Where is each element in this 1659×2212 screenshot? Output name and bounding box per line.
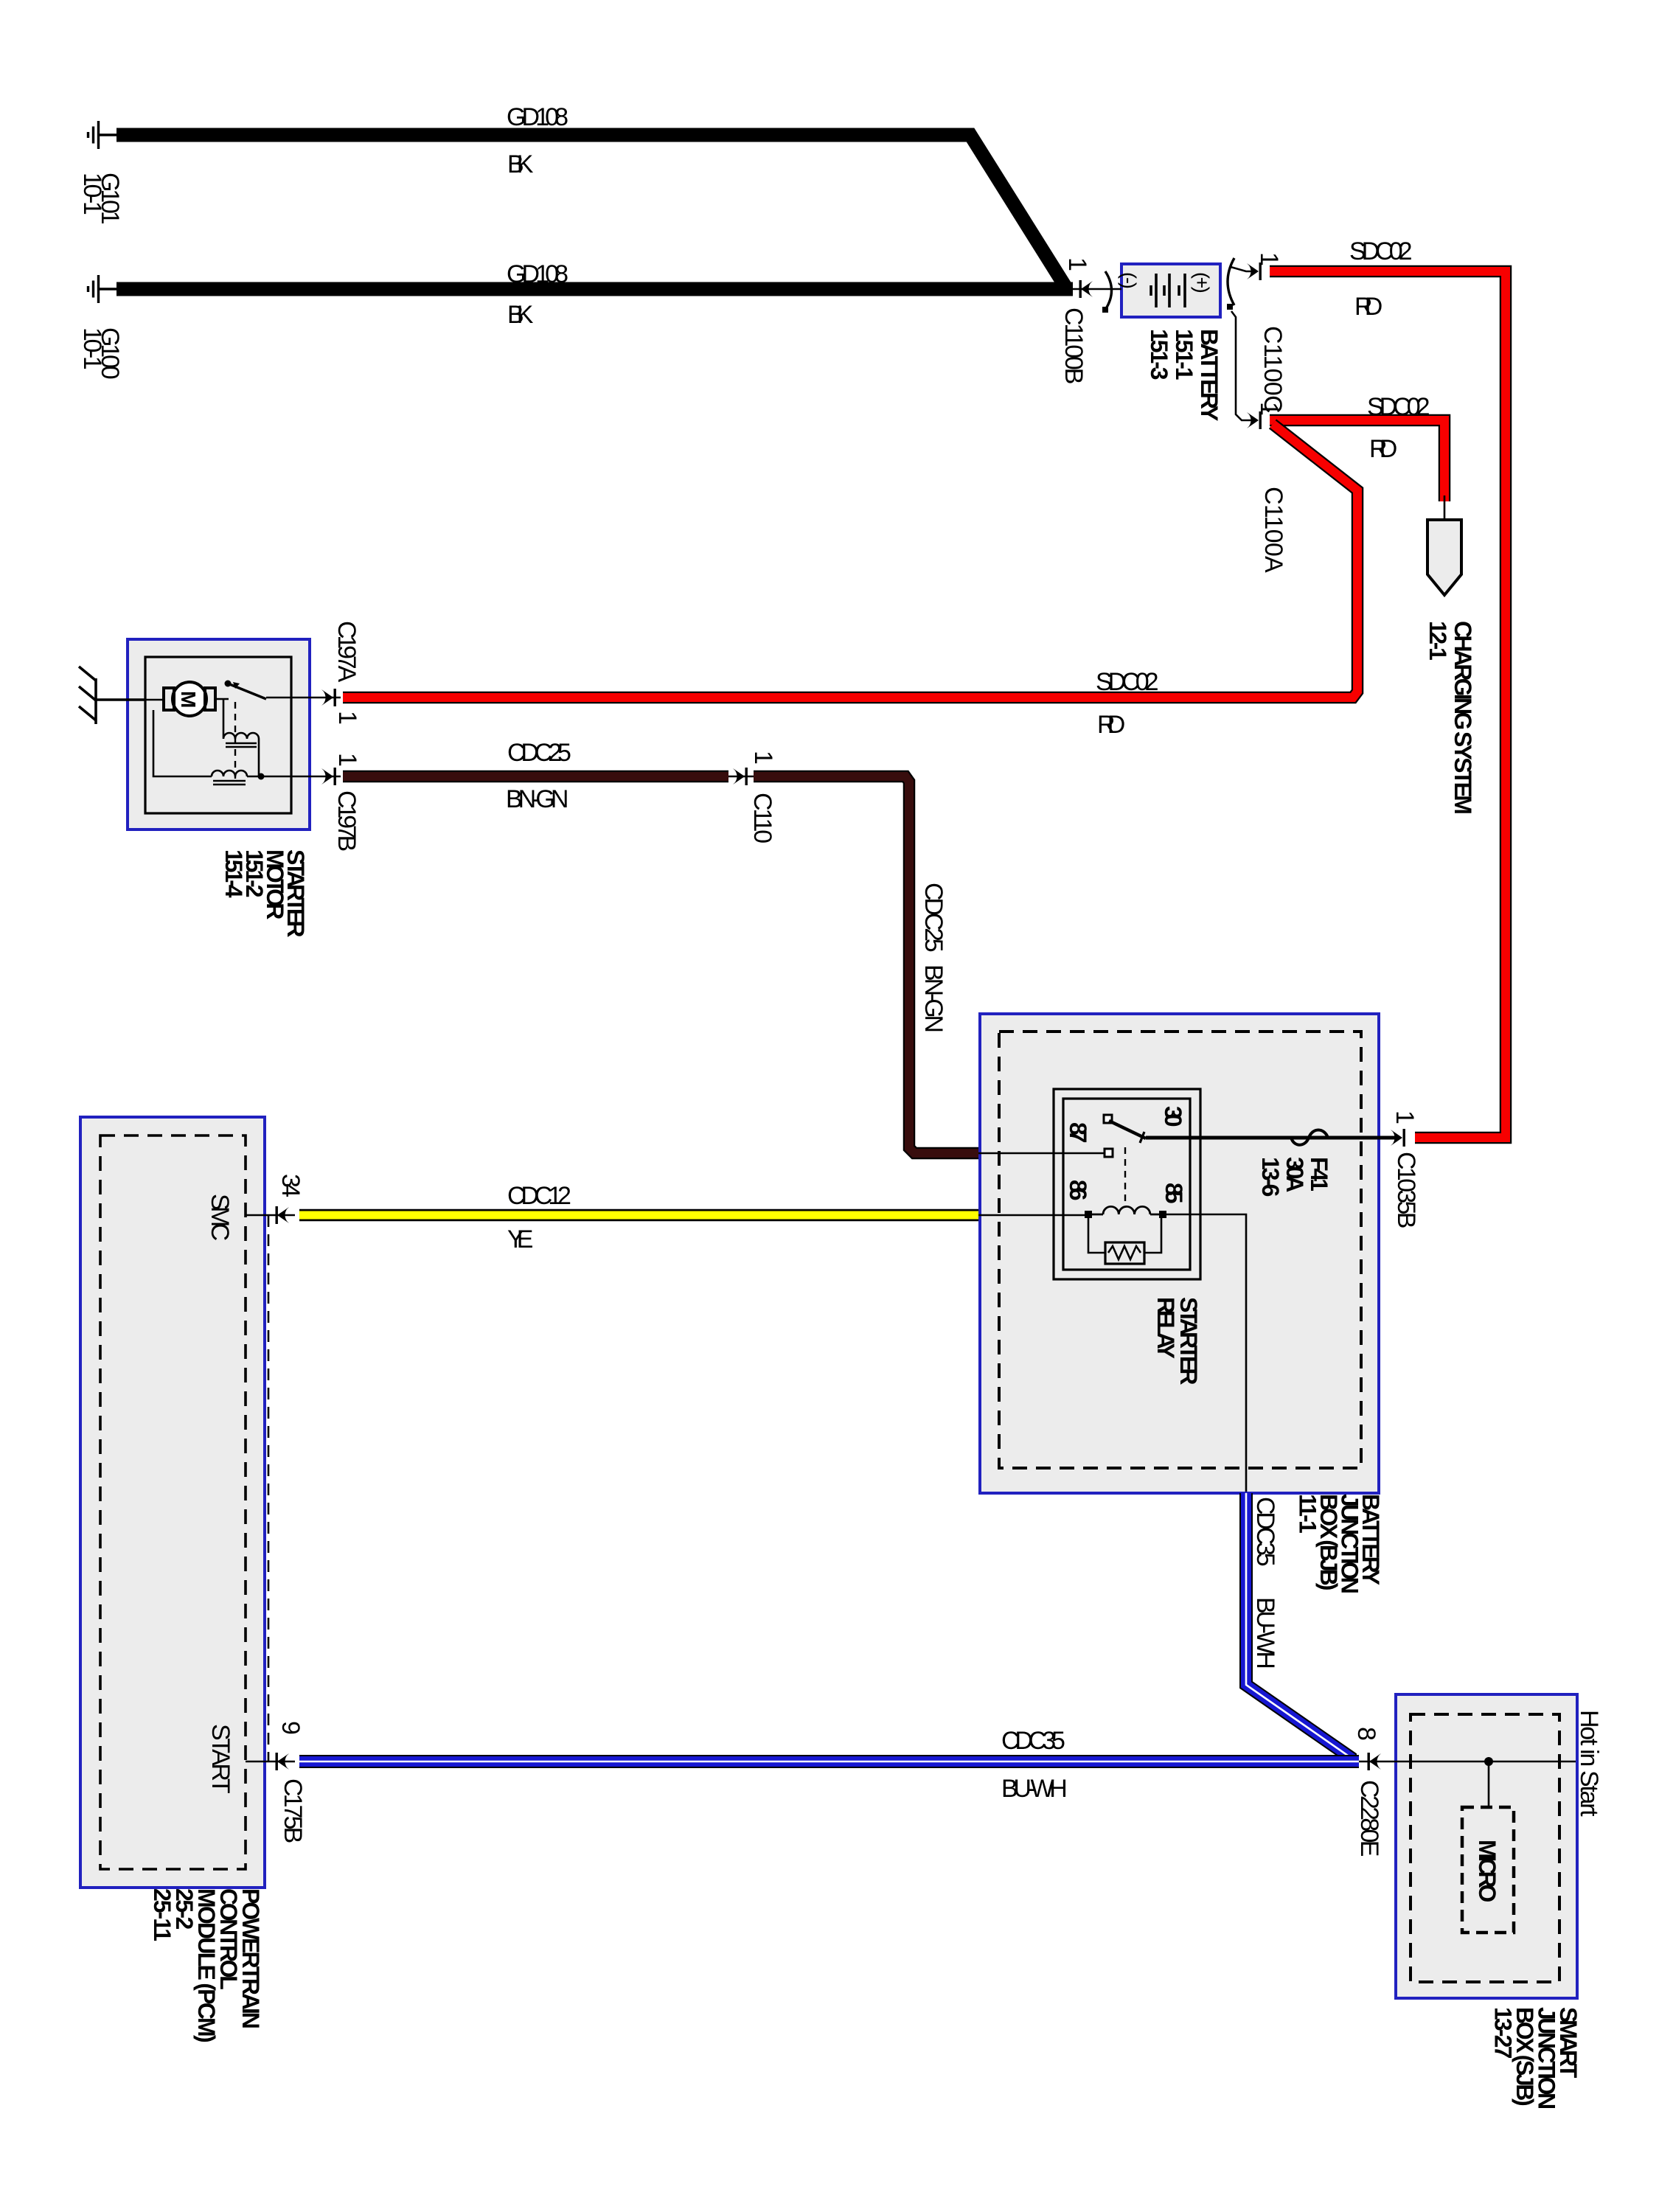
wire CDC25 C110 to BJB xyxy=(754,776,978,1153)
connector C197B xyxy=(321,768,336,785)
PCM dashed border xyxy=(100,1135,246,1869)
lead from GD108 to battery negative xyxy=(1073,288,1121,291)
svg-text:1: 1 xyxy=(1255,252,1283,266)
connector C1100B xyxy=(1079,280,1093,298)
MICRO dashed box xyxy=(1462,1807,1514,1933)
connector C1100C xyxy=(1247,262,1262,280)
svg-text:MICRO: MICRO xyxy=(1474,1840,1500,1902)
svg-text:34: 34 xyxy=(276,1174,305,1197)
svg-text:85: 85 xyxy=(1161,1183,1187,1204)
wire CDC25 starter to C110 xyxy=(343,771,728,783)
svg-text:F4130A13-6: F4130A13-6 xyxy=(1257,1157,1332,1197)
svg-text:1: 1 xyxy=(333,711,361,725)
relay switch blade xyxy=(1104,1115,1112,1123)
fuse F41 symbol xyxy=(1291,1130,1328,1145)
svg-text:87: 87 xyxy=(1065,1122,1091,1144)
svg-text:RD: RD xyxy=(1097,711,1125,739)
svg-text:1: 1 xyxy=(333,753,361,767)
svg-text:SDC02: SDC02 xyxy=(1349,237,1413,265)
wire SDC02 C1100A to starter motor xyxy=(343,424,1357,698)
wire CDC35 PCM START to SJB xyxy=(299,1755,1359,1768)
svg-text:1: 1 xyxy=(1255,402,1283,416)
wire SDC02 battery to C1035B (vertical run) xyxy=(1270,271,1506,1138)
svg-text:BK: BK xyxy=(507,301,534,329)
wire CDC12 PCM SMC to BJB xyxy=(299,1209,978,1222)
svg-text:GD108: GD108 xyxy=(507,103,568,131)
lead CDC12 to relay pin 86 xyxy=(978,1214,1087,1217)
svg-text:C1100B: C1100B xyxy=(1060,307,1088,384)
battery junction box (BJB) xyxy=(980,1014,1379,1493)
connector C110 xyxy=(733,768,748,785)
starter relay outer box xyxy=(1054,1089,1200,1279)
relay pin 87 contact xyxy=(1105,1149,1113,1157)
svg-text:BN-GN: BN-GN xyxy=(919,964,947,1033)
starter motor M circle xyxy=(173,682,206,716)
svg-text:C197B: C197B xyxy=(333,790,361,852)
svg-text:(+): (+) xyxy=(1191,272,1213,293)
svg-text:SMC: SMC xyxy=(206,1194,234,1241)
svg-text:9: 9 xyxy=(276,1721,305,1735)
SJB junction node xyxy=(1484,1757,1493,1766)
svg-text:RD: RD xyxy=(1369,435,1397,463)
solenoid hold-in winding xyxy=(212,771,247,776)
connector C197A xyxy=(321,689,336,706)
connector C1100A xyxy=(1247,411,1262,429)
starter motor box xyxy=(128,639,310,829)
relay pin 85 to CDC35 line xyxy=(1166,1214,1246,1492)
dashed link switch to solenoid xyxy=(234,702,236,779)
svg-text:C1100C: C1100C xyxy=(1259,326,1287,414)
svg-text:8: 8 xyxy=(1352,1727,1380,1741)
relay dashed actuator line xyxy=(1124,1147,1126,1208)
svg-text:C197A: C197A xyxy=(333,621,361,683)
chassis ground at starter motor xyxy=(79,667,145,724)
connector pin 34 of C175B xyxy=(276,1206,290,1224)
svg-text:C175B: C175B xyxy=(279,1778,307,1843)
svg-text:CDC35: CDC35 xyxy=(1001,1727,1065,1755)
SJB dashed border xyxy=(1411,1714,1559,1982)
connector C2280E xyxy=(1368,1753,1382,1770)
svg-text:86: 86 xyxy=(1065,1180,1091,1201)
svg-text:CDC25: CDC25 xyxy=(919,883,947,953)
svg-text:START: START xyxy=(206,1724,234,1794)
motor lead line xyxy=(145,699,165,701)
lead red wire to charging system connector xyxy=(1444,495,1446,520)
wire SDC02 battery C1100A branch to charging system xyxy=(1270,420,1444,501)
svg-text:BU-WH: BU-WH xyxy=(1001,1775,1068,1803)
lead node to MICRO xyxy=(1488,1761,1490,1807)
svg-text:1: 1 xyxy=(1391,1110,1419,1124)
wire GD108 from G100 xyxy=(116,282,1073,296)
battery positive leads to C1100C and C1100A xyxy=(1231,267,1254,420)
svg-text:C1100A: C1100A xyxy=(1259,487,1287,573)
svg-text:CDC25: CDC25 xyxy=(507,739,571,767)
svg-text:1: 1 xyxy=(749,751,777,765)
svg-text:(-): (-) xyxy=(1118,272,1140,289)
powertrain control module (PCM) box xyxy=(80,1117,265,1888)
relay suppression resistor xyxy=(1088,1217,1161,1253)
svg-text:CDC12: CDC12 xyxy=(507,1182,571,1210)
charging system connector symbol xyxy=(1427,520,1461,595)
solenoid pull-in winding xyxy=(223,700,259,776)
smart junction box (SJB) xyxy=(1396,1694,1577,1998)
wire CDC35 BJB to junction xyxy=(1246,1493,1350,1761)
svg-text:C110: C110 xyxy=(748,793,776,844)
svg-text:SDC02: SDC02 xyxy=(1096,668,1159,696)
relay coil xyxy=(1091,1206,1160,1214)
connector C1100C socket arc xyxy=(1228,258,1234,305)
winding junction node xyxy=(258,773,265,780)
wire GD108 from G101 xyxy=(116,135,1067,289)
svg-text:YE: YE xyxy=(507,1225,533,1253)
connector C1100B socket arc xyxy=(1105,271,1112,310)
relay pin 86 terminal xyxy=(1085,1211,1092,1218)
ground G100 xyxy=(88,275,117,303)
battery cell plates xyxy=(1151,274,1185,307)
svg-text:CDC35: CDC35 xyxy=(1251,1497,1279,1567)
lead through C110 xyxy=(728,776,754,778)
svg-text:M: M xyxy=(177,691,200,708)
connector C1035B xyxy=(1391,1129,1405,1147)
svg-text:BN-GN: BN-GN xyxy=(506,785,568,813)
motor brackets xyxy=(164,688,215,710)
battery box xyxy=(1121,264,1220,317)
lead starter motor to C197B xyxy=(291,776,341,778)
svg-text:C1035B: C1035B xyxy=(1392,1152,1420,1228)
svg-text:GD108: GD108 xyxy=(507,260,568,288)
svg-text:RD: RD xyxy=(1354,293,1382,321)
relay pin 85 terminal xyxy=(1159,1211,1166,1218)
starter motor inner case xyxy=(145,657,291,813)
connector C175B dashed line xyxy=(268,1215,270,1761)
lead C2280E into SJB xyxy=(1359,1761,1576,1763)
svg-text:BK: BK xyxy=(507,150,534,178)
svg-text:30: 30 xyxy=(1160,1106,1186,1127)
relay pin 30 switch line xyxy=(1146,1136,1394,1140)
lead CDC25 to relay pin 87 xyxy=(978,1152,1105,1155)
ground G101 xyxy=(88,121,117,149)
winding return line xyxy=(153,710,291,776)
svg-text:1: 1 xyxy=(1063,257,1091,271)
svg-text:BU-WH: BU-WH xyxy=(1251,1597,1279,1669)
BJB dashed border xyxy=(999,1032,1361,1468)
lead PCM SMC pin xyxy=(246,1214,295,1217)
lead starter motor to C197A xyxy=(266,697,341,699)
svg-text:Hot in Start: Hot in Start xyxy=(1575,1710,1603,1817)
lead PCM START pin xyxy=(246,1761,295,1763)
starter relay inner box xyxy=(1063,1099,1190,1270)
svg-text:SDC02: SDC02 xyxy=(1367,393,1430,421)
connector pin 9 of C175B xyxy=(276,1753,290,1770)
svg-text:C2280E: C2280E xyxy=(1355,1780,1383,1857)
starter solenoid switch xyxy=(225,681,232,687)
